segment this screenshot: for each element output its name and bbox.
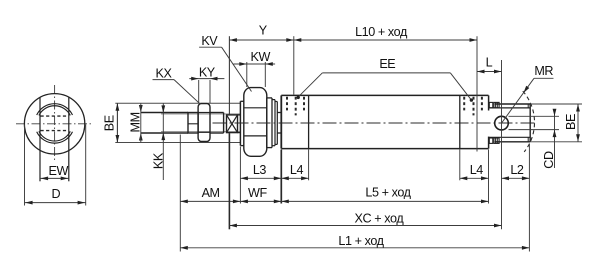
dimension Y — [229, 24, 293, 115]
svg-text:L: L — [486, 56, 493, 70]
extension line head-tube joint (L4) — [308, 150, 310, 181]
svg-text:KY: KY — [199, 66, 216, 80]
port size label EE with leaders — [297, 57, 474, 102]
eye body top edge — [495, 103, 530, 105]
rod nut KX body — [198, 104, 210, 142]
svg-text:MR: MR — [534, 64, 553, 78]
eye body bottom edge — [495, 141, 530, 143]
dimension L1 + stroke — [180, 234, 529, 250]
end view: thread arcs bottom (major and minor) — [37, 131, 73, 143]
extension line eye end (L2/L1) — [528, 144, 530, 252]
dimension BE left with label — [103, 103, 120, 142]
eye hole CD — [495, 116, 509, 130]
cylinder top outline — [281, 94, 488, 96]
mounting nut collar left — [240, 101, 243, 145]
cap right face upper — [488, 95, 490, 110]
dimension KY — [189, 66, 224, 104]
cap right face lower — [488, 137, 490, 149]
extension line rod thread end (AM/L1) — [179, 135, 181, 252]
dimension D — [25, 187, 86, 205]
dimension AM — [180, 186, 240, 203]
piston rod top line — [141, 112, 188, 114]
end view: hidden hole top — [41, 115, 69, 117]
dimension L3 — [240, 163, 281, 180]
svg-text:L4: L4 — [470, 163, 484, 177]
envelope band top line — [115, 102, 241, 104]
rear port EE hidden lines — [464, 97, 482, 116]
svg-text:BE: BE — [564, 114, 578, 130]
svg-text:WF: WF — [248, 186, 267, 200]
dimension MM (rod diameter) with label — [128, 103, 142, 142]
svg-text:AM: AM — [202, 186, 220, 200]
stub bottom to mounting nut — [238, 132, 241, 134]
svg-text:XC + ход: XC + ход — [355, 212, 405, 226]
eye body inner line top — [489, 107, 531, 109]
dimension WF — [240, 186, 281, 203]
end view: fork flat right (EW) — [68, 98, 70, 182]
svg-text:MM: MM — [128, 112, 142, 132]
mounting nut KV/KW body — [244, 88, 267, 157]
dimension XC + stroke — [229, 133, 501, 229]
eye rib box 2 top — [494, 102, 499, 107]
svg-text:L10 + ход: L10 + ход — [355, 25, 408, 39]
head-tube boundary — [308, 95, 310, 148]
dimension L4 right — [460, 163, 489, 180]
label KV with leader — [199, 34, 251, 91]
main centreline — [213, 122, 538, 124]
eye body inner line bottom — [489, 136, 531, 138]
dimension L10 + stroke — [294, 25, 477, 152]
collar 3 — [275, 102, 277, 145]
extension line head face (L3/L4/WF/L5) — [280, 150, 282, 204]
dimension L2 — [502, 163, 530, 180]
envelope band left edge — [116, 103, 118, 142]
dimension L — [477, 56, 502, 230]
svg-text:BE: BE — [103, 115, 117, 131]
svg-text:CD: CD — [542, 151, 556, 169]
rod nut KX face line top — [198, 112, 210, 114]
eye rib box 1 bottom — [489, 138, 493, 143]
extension lines BE right — [530, 104, 582, 142]
piston rod bottom line — [141, 132, 188, 134]
rod end face — [223, 113, 225, 134]
wrench flats diagonal 1 — [227, 115, 238, 133]
piston rod top — [210, 112, 224, 114]
svg-text:L4: L4 — [290, 163, 304, 177]
cylinder bottom outline — [281, 148, 488, 150]
end view: D extension right — [85, 125, 87, 206]
svg-text:Y: Y — [259, 24, 268, 38]
end view: D extension left — [24, 125, 26, 206]
mounting nut face line top — [244, 107, 267, 109]
eye body right face — [529, 104, 531, 142]
extension line tube end (L4 right) — [459, 150, 461, 181]
dimension EW — [40, 164, 69, 180]
eye rib box 2 bottom — [494, 138, 499, 143]
svg-text:D: D — [51, 187, 60, 201]
tube end face — [459, 95, 461, 148]
washer under rod nut — [188, 113, 198, 134]
wrench flats square — [227, 115, 238, 133]
svg-text:KV: KV — [201, 34, 218, 48]
rod thread minor line top — [161, 113, 240, 115]
dimension L4 left — [281, 163, 308, 180]
head front face — [280, 95, 282, 148]
eye body chamfer tick top — [527, 104, 529, 108]
svg-text:KK: KK — [151, 152, 165, 169]
label MR with leader — [502, 64, 554, 123]
swivel radius MR dashed arc — [523, 91, 535, 152]
collar 1 after nut — [267, 98, 272, 148]
svg-text:EE: EE — [379, 57, 395, 71]
end view: hidden hole bottom — [41, 130, 69, 132]
rod nut KX face line bottom — [198, 131, 210, 133]
svg-text:KX: KX — [156, 67, 173, 81]
svg-text:L3: L3 — [253, 163, 267, 177]
label KX with leader — [153, 67, 201, 105]
end view: fork flat left (EW) — [39, 98, 41, 182]
neck before head bottom — [277, 132, 281, 134]
end view: vertical centreline — [54, 85, 56, 163]
envelope band bottom line — [115, 142, 241, 144]
end view: outer circle D — [24, 94, 84, 154]
dimension L5 + stroke — [281, 185, 488, 203]
eye body chamfer tick bottom — [527, 137, 529, 142]
svg-text:L1 + ход: L1 + ход — [338, 234, 384, 248]
front port EE hidden lines — [287, 97, 304, 116]
dimension KK (rod thread) with label — [151, 104, 165, 181]
svg-text:KW: KW — [250, 50, 270, 64]
piston rod bottom — [210, 132, 224, 134]
dimension BE right with label — [564, 104, 580, 142]
dimension CD with label — [542, 109, 557, 169]
end view: horizontal centreline — [16, 123, 94, 125]
stub top to mounting nut — [238, 114, 241, 116]
extension lines CD — [509, 116, 560, 129]
neck before head top — [277, 112, 281, 114]
eye rib box 1 top — [489, 102, 493, 107]
extension line cap face (L4/L5) — [488, 150, 490, 204]
dimension KW — [234, 50, 276, 87]
svg-text:EW: EW — [48, 164, 68, 178]
svg-text:L5 + ход: L5 + ход — [365, 185, 411, 199]
wrench flats diagonal 2 — [227, 115, 238, 133]
end view: thread arcs top (major and minor) — [37, 104, 73, 116]
collar 2 — [272, 100, 275, 146]
mounting nut face line bottom — [244, 135, 267, 137]
rod thread minor line bottom — [161, 131, 240, 133]
extension line mounting nut face (AM/WF/L3) — [239, 147, 241, 204]
svg-text:L2: L2 — [510, 163, 524, 177]
